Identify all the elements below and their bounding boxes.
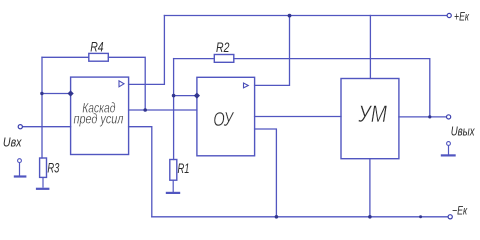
amplifier triangle in block1 <box>119 81 124 87</box>
ground under R3 <box>36 177 50 188</box>
wire to OU inverting input y95.6 <box>174 95 197 97</box>
junction dot bottom rail x369.9 <box>368 215 372 219</box>
junction dot node A <box>40 92 43 95</box>
wire input Uvx to block1 <box>22 126 70 128</box>
ground under Uvx <box>14 159 27 177</box>
wire R4 left horizontal <box>42 56 89 58</box>
wire rail drop to UM top <box>369 16 371 79</box>
wire R2 right long to x429.8 and down <box>234 59 430 117</box>
resistor R4 <box>89 53 109 61</box>
block Каскад пред усил <box>71 77 129 154</box>
wire UM bottom leg <box>369 159 371 217</box>
junction diamond block1 input <box>67 90 73 96</box>
resistor R3 <box>40 158 47 177</box>
junction dot R4 leg y110 <box>143 108 147 112</box>
junction dot Uvyx wire x429.8 <box>428 115 431 118</box>
wire bottom rail -Ek <box>152 216 448 218</box>
wire R4 left vertical <box>41 57 43 158</box>
wire rail drop to OU output <box>255 16 290 86</box>
resistor R1 <box>170 160 177 181</box>
svg-text:Uвх: Uвх <box>3 135 22 150</box>
junction dot bottom rail x276.4 <box>275 215 279 219</box>
wire R2 left leg down to R1 <box>173 59 175 160</box>
wire top rail +Ek <box>164 15 447 17</box>
wire block1 right down to bottom rail <box>129 127 152 217</box>
op-amp block ОУ <box>197 77 255 156</box>
terminal Uvyx <box>447 115 451 119</box>
svg-text:+Eк: +Eк <box>454 9 469 23</box>
svg-text:Uвых: Uвых <box>451 125 475 139</box>
svg-text:−Eк: −Eк <box>452 204 468 218</box>
wire R2 left horizontal <box>174 58 215 60</box>
wire block1 to OU y110 <box>129 109 197 111</box>
terminal Uvx <box>18 125 22 129</box>
amplifier triangle in OU block <box>244 83 249 88</box>
terminal -Ek <box>448 215 452 219</box>
svg-text:R4: R4 <box>90 39 104 55</box>
junction diamond OU input <box>194 92 200 98</box>
wire OU to UM y116.5 <box>255 116 341 118</box>
amplifier block УМ <box>341 79 399 159</box>
junction dot rail x289.5 <box>288 14 292 18</box>
resistor R2 <box>214 55 234 63</box>
svg-text:R2: R2 <box>216 39 230 55</box>
wire UM output to Uvyx terminal <box>399 116 447 118</box>
ground under Uvyx <box>441 142 456 156</box>
wire OU lower right down to bottom rail <box>255 129 277 217</box>
wire node A y93.5 <box>42 93 71 95</box>
wire rail left corner leg down to Kaskad output <box>129 16 165 85</box>
svg-text:УМ: УМ <box>358 101 388 128</box>
terminal +Ek <box>447 13 451 17</box>
junction dot bottom rail x420.6 <box>419 215 422 218</box>
junction dot R2 leg y95.6 <box>172 94 176 98</box>
ground under R1 <box>166 180 180 193</box>
svg-text:R3: R3 <box>47 159 59 175</box>
wire R4 right to down leg <box>108 57 145 110</box>
svg-text:пред усил: пред усил <box>74 110 124 126</box>
svg-text:ОУ: ОУ <box>213 108 234 131</box>
svg-text:R1: R1 <box>178 160 190 176</box>
